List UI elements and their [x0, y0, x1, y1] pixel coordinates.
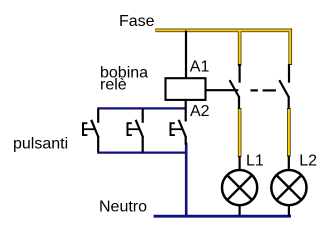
- svg-text:relè: relè: [100, 77, 127, 94]
- svg-text:pulsanti: pulsanti: [13, 135, 68, 152]
- svg-text:Fase: Fase: [119, 13, 155, 30]
- svg-text:L1: L1: [246, 152, 264, 169]
- svg-text:A1: A1: [190, 59, 210, 76]
- svg-text:A2: A2: [190, 103, 210, 120]
- svg-text:Neutro: Neutro: [99, 199, 147, 216]
- svg-text:L2: L2: [299, 152, 317, 169]
